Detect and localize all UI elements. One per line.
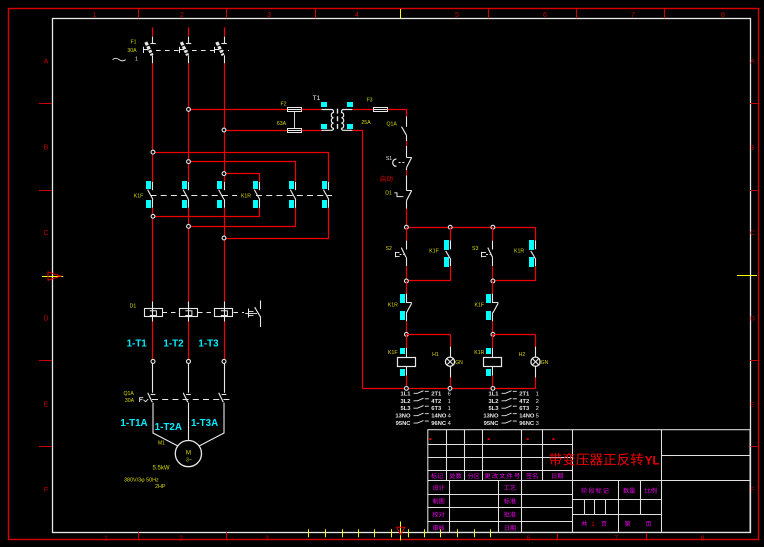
- node join: [405, 279, 409, 283]
- svg-text:5: 5: [536, 414, 539, 420]
- wire phase L2 vertical: [188, 27, 190, 359]
- svg-text:2: 2: [179, 536, 183, 543]
- contactor K1R main contacts: [253, 181, 329, 208]
- F2 link: [294, 112, 296, 128]
- svg-text:1-T3: 1-T3: [198, 339, 219, 350]
- wire phase L3 vertical: [224, 27, 226, 359]
- wire bottom rail T3: [225, 208, 329, 239]
- svg-text:1: 1: [591, 521, 595, 528]
- svg-text:14NO: 14NO: [431, 414, 447, 420]
- node join: [491, 279, 495, 283]
- svg-text:3: 3: [536, 421, 539, 427]
- fuse F2 pole b: [287, 129, 301, 133]
- contact Q1A aux: [402, 117, 407, 142]
- transformer T1: [321, 102, 353, 130]
- svg-text:3L2: 3L2: [401, 399, 411, 405]
- wire segment: [406, 170, 408, 191]
- svg-text:D: D: [750, 316, 755, 323]
- node coil branch: [405, 333, 409, 337]
- svg-text:D: D: [43, 316, 48, 323]
- wires to switch Q1A: [153, 364, 225, 393]
- wire rail L1 to K1R pole3: [153, 153, 329, 183]
- node rail T3 bottom: [222, 236, 226, 240]
- bottom zone numbers: [104, 536, 705, 543]
- label F1 30A 1: [113, 40, 139, 63]
- svg-text:1: 1: [104, 536, 108, 543]
- node bottom lamp H1: [448, 387, 452, 391]
- svg-text:1-T2A: 1-T2A: [155, 422, 182, 433]
- svg-text:7: 7: [631, 12, 635, 19]
- svg-text:K1R: K1R: [241, 193, 251, 199]
- svg-text:E: E: [44, 402, 49, 409]
- svg-text:S3: S3: [472, 246, 478, 252]
- svg-text:1-T1: 1-T1: [127, 339, 148, 350]
- left zone letters A-F: [43, 59, 48, 495]
- svg-text:5L3: 5L3: [401, 406, 412, 412]
- wire tap L2 to F2: [189, 109, 288, 111]
- svg-text:1: 1: [536, 391, 539, 397]
- svg-text:1: 1: [448, 406, 451, 412]
- svg-text:E: E: [750, 402, 755, 409]
- contact K1F aux NO: [444, 227, 451, 281]
- top centre mark: [400, 9, 402, 18]
- svg-text:K1F: K1F: [429, 249, 439, 255]
- terminal list right: [483, 391, 538, 427]
- coil K1F: [398, 334, 416, 388]
- svg-text:3: 3: [267, 12, 271, 19]
- switch Q1A: [140, 393, 231, 403]
- lamp H1: [406, 334, 454, 388]
- svg-text:2T1: 2T1: [431, 391, 442, 397]
- right zone letter ticks: [750, 104, 758, 447]
- motor M1: [175, 441, 201, 467]
- svg-text:F3: F3: [366, 98, 372, 104]
- svg-text:F2: F2: [280, 101, 286, 107]
- wire bottom rail T2: [189, 208, 296, 227]
- svg-text:C: C: [43, 230, 48, 237]
- bottom centre mark: [397, 522, 405, 541]
- pushbutton S2: [395, 227, 406, 281]
- svg-text:H2: H2: [519, 352, 526, 358]
- svg-text:95NC: 95NC: [484, 421, 500, 427]
- wire bottom rail T1: [153, 208, 260, 217]
- svg-text:2: 2: [180, 12, 184, 19]
- svg-text:25A: 25A: [361, 120, 371, 126]
- node bus K1F aux: [448, 225, 452, 229]
- svg-text:14NO: 14NO: [519, 414, 535, 420]
- svg-text:B: B: [750, 145, 754, 152]
- svg-text:K1F: K1F: [388, 350, 398, 356]
- svg-text:K1F: K1F: [134, 193, 144, 199]
- contact K1R interlock NC: [400, 281, 412, 334]
- bottom zone number ticks: [139, 532, 647, 540]
- svg-text:H1: H1: [432, 352, 439, 358]
- title block frame: [428, 430, 750, 533]
- node bottom coil K1F: [405, 387, 409, 391]
- svg-text:380V/3φ 50Hz: 380V/3φ 50Hz: [124, 478, 159, 484]
- svg-text:M1: M1: [158, 441, 165, 447]
- wire T1 secondary return: [353, 131, 363, 389]
- svg-text:2: 2: [536, 399, 539, 405]
- right centre mark: [737, 275, 757, 277]
- svg-text:1-T2: 1-T2: [163, 339, 184, 350]
- fuse F2 pole a: [287, 108, 301, 112]
- lamp H2: [493, 334, 540, 388]
- svg-text:K1R: K1R: [388, 302, 398, 308]
- terminal nodes: [151, 359, 226, 363]
- svg-text:Q1A: Q1A: [387, 122, 398, 128]
- svg-text:M: M: [186, 450, 191, 457]
- wires to motor: [153, 403, 224, 448]
- svg-text:1: 1: [93, 12, 97, 19]
- svg-text:95NC: 95NC: [396, 421, 412, 427]
- labels 1-T1A 1-T2A 1-T3A: [120, 418, 218, 433]
- svg-text:13NO: 13NO: [483, 414, 499, 420]
- drawing title: [549, 453, 659, 468]
- svg-text:K1F: K1F: [475, 302, 485, 308]
- svg-text:S2: S2: [386, 246, 392, 252]
- svg-text:1-T3A: 1-T3A: [191, 418, 218, 429]
- pushbutton S3: [482, 227, 493, 281]
- svg-text:5.5kW: 5.5kW: [152, 466, 169, 472]
- svg-text:30A: 30A: [127, 48, 137, 54]
- sheet count labels: [581, 521, 651, 528]
- svg-text:2HP: 2HP: [155, 484, 166, 490]
- svg-text:5: 5: [455, 12, 459, 19]
- node L3 tap: [222, 128, 226, 132]
- svg-text:A: A: [750, 59, 755, 66]
- node coil branch: [491, 333, 495, 337]
- node rail L2 top: [187, 160, 191, 164]
- wire rail L2 to K1R pole2: [189, 162, 296, 183]
- svg-text:A: A: [44, 59, 49, 66]
- label qidong (start): [380, 175, 386, 181]
- contact D1 NC: [394, 191, 411, 204]
- node rail L3 top: [222, 172, 226, 176]
- svg-text:2T1: 2T1: [519, 391, 530, 397]
- svg-text:6: 6: [543, 12, 547, 19]
- svg-text:3L2: 3L2: [489, 399, 499, 405]
- svg-text:YL: YL: [645, 455, 660, 467]
- node rail T2 bottom: [187, 225, 191, 229]
- wire segment: [406, 141, 408, 154]
- wire to control bus: [406, 203, 408, 227]
- stage mark labels: [582, 488, 657, 494]
- top zone numbers 1-8: [93, 12, 726, 19]
- svg-text:3: 3: [265, 536, 269, 543]
- svg-text:96NC: 96NC: [431, 421, 447, 427]
- contact K1F interlock NC: [486, 281, 498, 334]
- wire seal join: [406, 280, 450, 282]
- node L2 tap: [187, 108, 191, 112]
- wire F2a to T1: [302, 109, 323, 111]
- svg-text:D1: D1: [385, 190, 392, 196]
- fuse F3: [374, 108, 388, 112]
- svg-text:F: F: [751, 487, 755, 494]
- svg-text:D1: D1: [130, 304, 137, 310]
- node bottom coil K1R: [491, 387, 495, 391]
- svg-text:1: 1: [448, 399, 451, 405]
- svg-text:4T2: 4T2: [519, 399, 529, 405]
- svg-text:C: C: [750, 230, 755, 237]
- coil K1R: [484, 334, 502, 388]
- svg-text:4: 4: [355, 12, 359, 19]
- wire F3 to control: [388, 110, 407, 117]
- contact K1R aux NO: [529, 227, 536, 281]
- wire F2b to T1: [302, 130, 323, 132]
- svg-text:8: 8: [701, 536, 705, 543]
- linkage dashes K1F-K1R: [151, 195, 238, 197]
- svg-text:GN: GN: [541, 360, 549, 366]
- svg-text:F: F: [44, 487, 48, 494]
- wire tap L3 to F2: [224, 130, 287, 132]
- left centre mark: [42, 272, 63, 280]
- right zone letters A-F: [750, 59, 755, 495]
- svg-text:6: 6: [448, 391, 451, 397]
- bottom scale ticks: [309, 529, 491, 537]
- svg-text:1L1: 1L1: [489, 391, 500, 397]
- svg-text:K1R: K1R: [474, 350, 484, 356]
- svg-text:6: 6: [527, 536, 531, 543]
- terminal list left: [395, 391, 451, 427]
- svg-text:6T3: 6T3: [431, 406, 442, 412]
- wire seal join: [493, 280, 535, 282]
- pushbutton S1: [393, 154, 412, 170]
- svg-text:3~: 3~: [186, 458, 192, 464]
- title block header labels: [431, 473, 563, 479]
- wire T1 to F3: [352, 109, 373, 111]
- svg-text:2: 2: [536, 406, 539, 412]
- svg-text:8: 8: [721, 12, 725, 19]
- node bus S2: [405, 225, 409, 229]
- svg-text:13NO: 13NO: [395, 414, 411, 420]
- svg-text:1: 1: [135, 57, 138, 63]
- thermal overload D1: [145, 301, 261, 328]
- svg-text:6T3: 6T3: [519, 406, 530, 412]
- wire phase L1 vertical: [152, 27, 154, 359]
- svg-text:B: B: [44, 145, 49, 152]
- svg-text:Q1A: Q1A: [124, 391, 135, 397]
- svg-text:5L3: 5L3: [489, 406, 500, 412]
- svg-text:4T2: 4T2: [431, 399, 441, 405]
- top zone number ticks: [139, 9, 665, 18]
- svg-text:S1: S1: [386, 156, 392, 162]
- wire rail L3 to K1R pole1: [225, 174, 260, 183]
- wire control top bus: [406, 227, 535, 229]
- svg-text:7: 7: [614, 536, 618, 543]
- node rail T1 bottom: [151, 214, 155, 218]
- node bus S3: [491, 225, 495, 229]
- node rail L1 top: [151, 150, 155, 154]
- revision row marks: [429, 438, 554, 440]
- svg-text:K1R: K1R: [514, 249, 524, 255]
- signature labels: [433, 485, 516, 531]
- svg-text:96NC: 96NC: [519, 421, 535, 427]
- svg-text:T1: T1: [313, 95, 321, 102]
- wire control bottom bus: [363, 388, 536, 390]
- switch-fuse F1: [144, 37, 230, 64]
- left zone letter ticks: [39, 104, 52, 447]
- svg-text:1L1: 1L1: [401, 391, 412, 397]
- svg-text:1-T1A: 1-T1A: [120, 418, 147, 429]
- svg-text:30A: 30A: [125, 398, 135, 404]
- svg-text:GN: GN: [455, 360, 463, 366]
- label Q1A 30A: [124, 391, 135, 404]
- svg-text:F1: F1: [130, 40, 136, 46]
- svg-text:63A: 63A: [277, 121, 287, 127]
